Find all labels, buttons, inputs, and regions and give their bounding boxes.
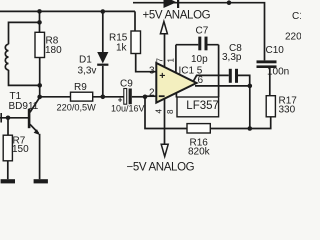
svg-text:+: + xyxy=(159,70,165,82)
wire: node to pin 2 xyxy=(145,95,157,97)
svg-text:2: 2 xyxy=(149,87,155,98)
zener diode D1 xyxy=(102,12,104,53)
svg-text:R9: R9 xyxy=(74,82,87,93)
node: dot feedback rail xyxy=(248,126,253,131)
svg-text:1k: 1k xyxy=(116,43,128,54)
node: dot rail A / R8 branch xyxy=(37,9,42,14)
wire: emitter down to ground xyxy=(39,134,41,179)
svg-text:+5V ANALOG: +5V ANALOG xyxy=(143,10,211,22)
svg-text:8: 8 xyxy=(166,109,175,114)
resistor R7 xyxy=(7,118,9,135)
capacitor C10 xyxy=(257,60,277,63)
transistor emitter arrowhead xyxy=(34,129,40,135)
resistor R17 xyxy=(266,96,275,117)
capacitor C7 loop top wire xyxy=(176,44,219,46)
capacitor C7 plates xyxy=(198,37,201,51)
node: dot base / R7 xyxy=(6,116,11,121)
wire: C7 right vertical down xyxy=(218,45,220,97)
wire: feedback from inverting node down xyxy=(145,97,187,129)
svg-text:330: 330 xyxy=(279,105,296,116)
capacitor C9 (electrolytic) xyxy=(124,89,127,105)
svg-text:3,3p: 3,3p xyxy=(222,52,242,63)
svg-text:4: 4 xyxy=(155,109,164,114)
svg-text:150: 150 xyxy=(12,144,29,155)
wire: collector node to R9 xyxy=(40,96,71,98)
svg-text:6: 6 xyxy=(198,75,204,86)
wire: coil top connection xyxy=(9,22,40,44)
ground (emitter) xyxy=(34,179,48,183)
svg-text:820k: 820k xyxy=(188,147,211,158)
resistor R15 xyxy=(134,11,136,31)
-5V arrow (open, down) xyxy=(161,144,168,156)
svg-text:IC1: IC1 xyxy=(179,66,195,77)
+5V arrow (open, up) xyxy=(160,22,167,34)
wire: R8 top lead from rail A xyxy=(39,11,41,32)
pin 7 wire up to +5V arrow xyxy=(164,34,166,68)
node: dot D1 / signal wire xyxy=(101,95,106,100)
wire: stub at left edge xyxy=(0,113,2,123)
node: dot tee of coil wire into R8 lead xyxy=(37,20,42,25)
svg-text:D1: D1 xyxy=(79,55,92,66)
node: dot collector junction xyxy=(37,95,42,100)
node: junction dot on +5V rail xyxy=(227,0,232,5)
wire: coil bottom to R8 bottom node xyxy=(9,70,40,86)
svg-text:10p: 10p xyxy=(191,54,208,65)
inductor L (T1 coil) xyxy=(5,44,8,70)
transistor base bar xyxy=(28,109,31,128)
svg-text:C7: C7 xyxy=(196,26,209,37)
svg-text:3,3v: 3,3v xyxy=(78,66,97,77)
svg-text:C10: C10 xyxy=(266,45,285,56)
IC1 LF357 label box xyxy=(177,97,219,117)
svg-text:7: 7 xyxy=(156,58,165,63)
capacitor C8 plates xyxy=(229,69,232,83)
svg-text:220/0,5W: 220/0,5W xyxy=(57,102,97,112)
wire: base wire from left edge xyxy=(0,117,28,119)
node: dot inverting input xyxy=(143,95,148,100)
pin 4 wire down to -5V arrow xyxy=(164,99,166,145)
svg-text:10u/16V: 10u/16V xyxy=(111,104,145,114)
wire: output down to feedback rail xyxy=(249,86,251,129)
svg-text:LF357: LF357 xyxy=(186,100,219,112)
resistor R9 xyxy=(71,92,93,101)
wire: R8 bottom lead down to collector node xyxy=(39,58,41,97)
svg-text:180: 180 xyxy=(45,45,62,56)
resistor R16 xyxy=(187,124,210,133)
node: dot coil/R8 bottom xyxy=(37,83,42,88)
svg-text:220: 220 xyxy=(285,32,301,43)
wire: left supply rail A xyxy=(0,10,135,12)
transistor collector line xyxy=(30,97,40,112)
diode D2 (cut off at top edge) xyxy=(164,0,180,8)
svg-text:C9: C9 xyxy=(120,79,133,90)
node: dot output xyxy=(248,84,253,89)
pin 8 stub xyxy=(175,93,177,98)
wire: C9 to inverting input node xyxy=(132,96,145,98)
pin 6 output wire xyxy=(195,85,250,87)
wire: C10 bottom to R17 xyxy=(269,68,271,96)
wire: +5V top rail (upper) xyxy=(133,3,265,61)
node: dot rail A / D1 branch xyxy=(101,9,106,14)
pin 5 wire to C8 xyxy=(193,75,249,86)
wire: R7 bottom lead xyxy=(7,161,9,179)
svg-text:−5V ANALOG: −5V ANALOG xyxy=(127,162,195,174)
resistor R8 xyxy=(35,32,45,57)
wire: R9 to C9 xyxy=(93,96,124,98)
svg-text:1: 1 xyxy=(167,58,176,63)
wire: R15 bottom lead to pin 3 xyxy=(136,54,157,72)
ground (R7) xyxy=(1,179,15,183)
svg-text:C1: C1 xyxy=(292,11,301,22)
op-amp IC1 triangle xyxy=(156,63,196,103)
svg-text:3: 3 xyxy=(149,66,155,77)
pin 1 wire up to C7 xyxy=(175,45,177,74)
wire: R16 right to output rail and R17 xyxy=(210,117,270,129)
transistor emitter line xyxy=(30,124,39,133)
